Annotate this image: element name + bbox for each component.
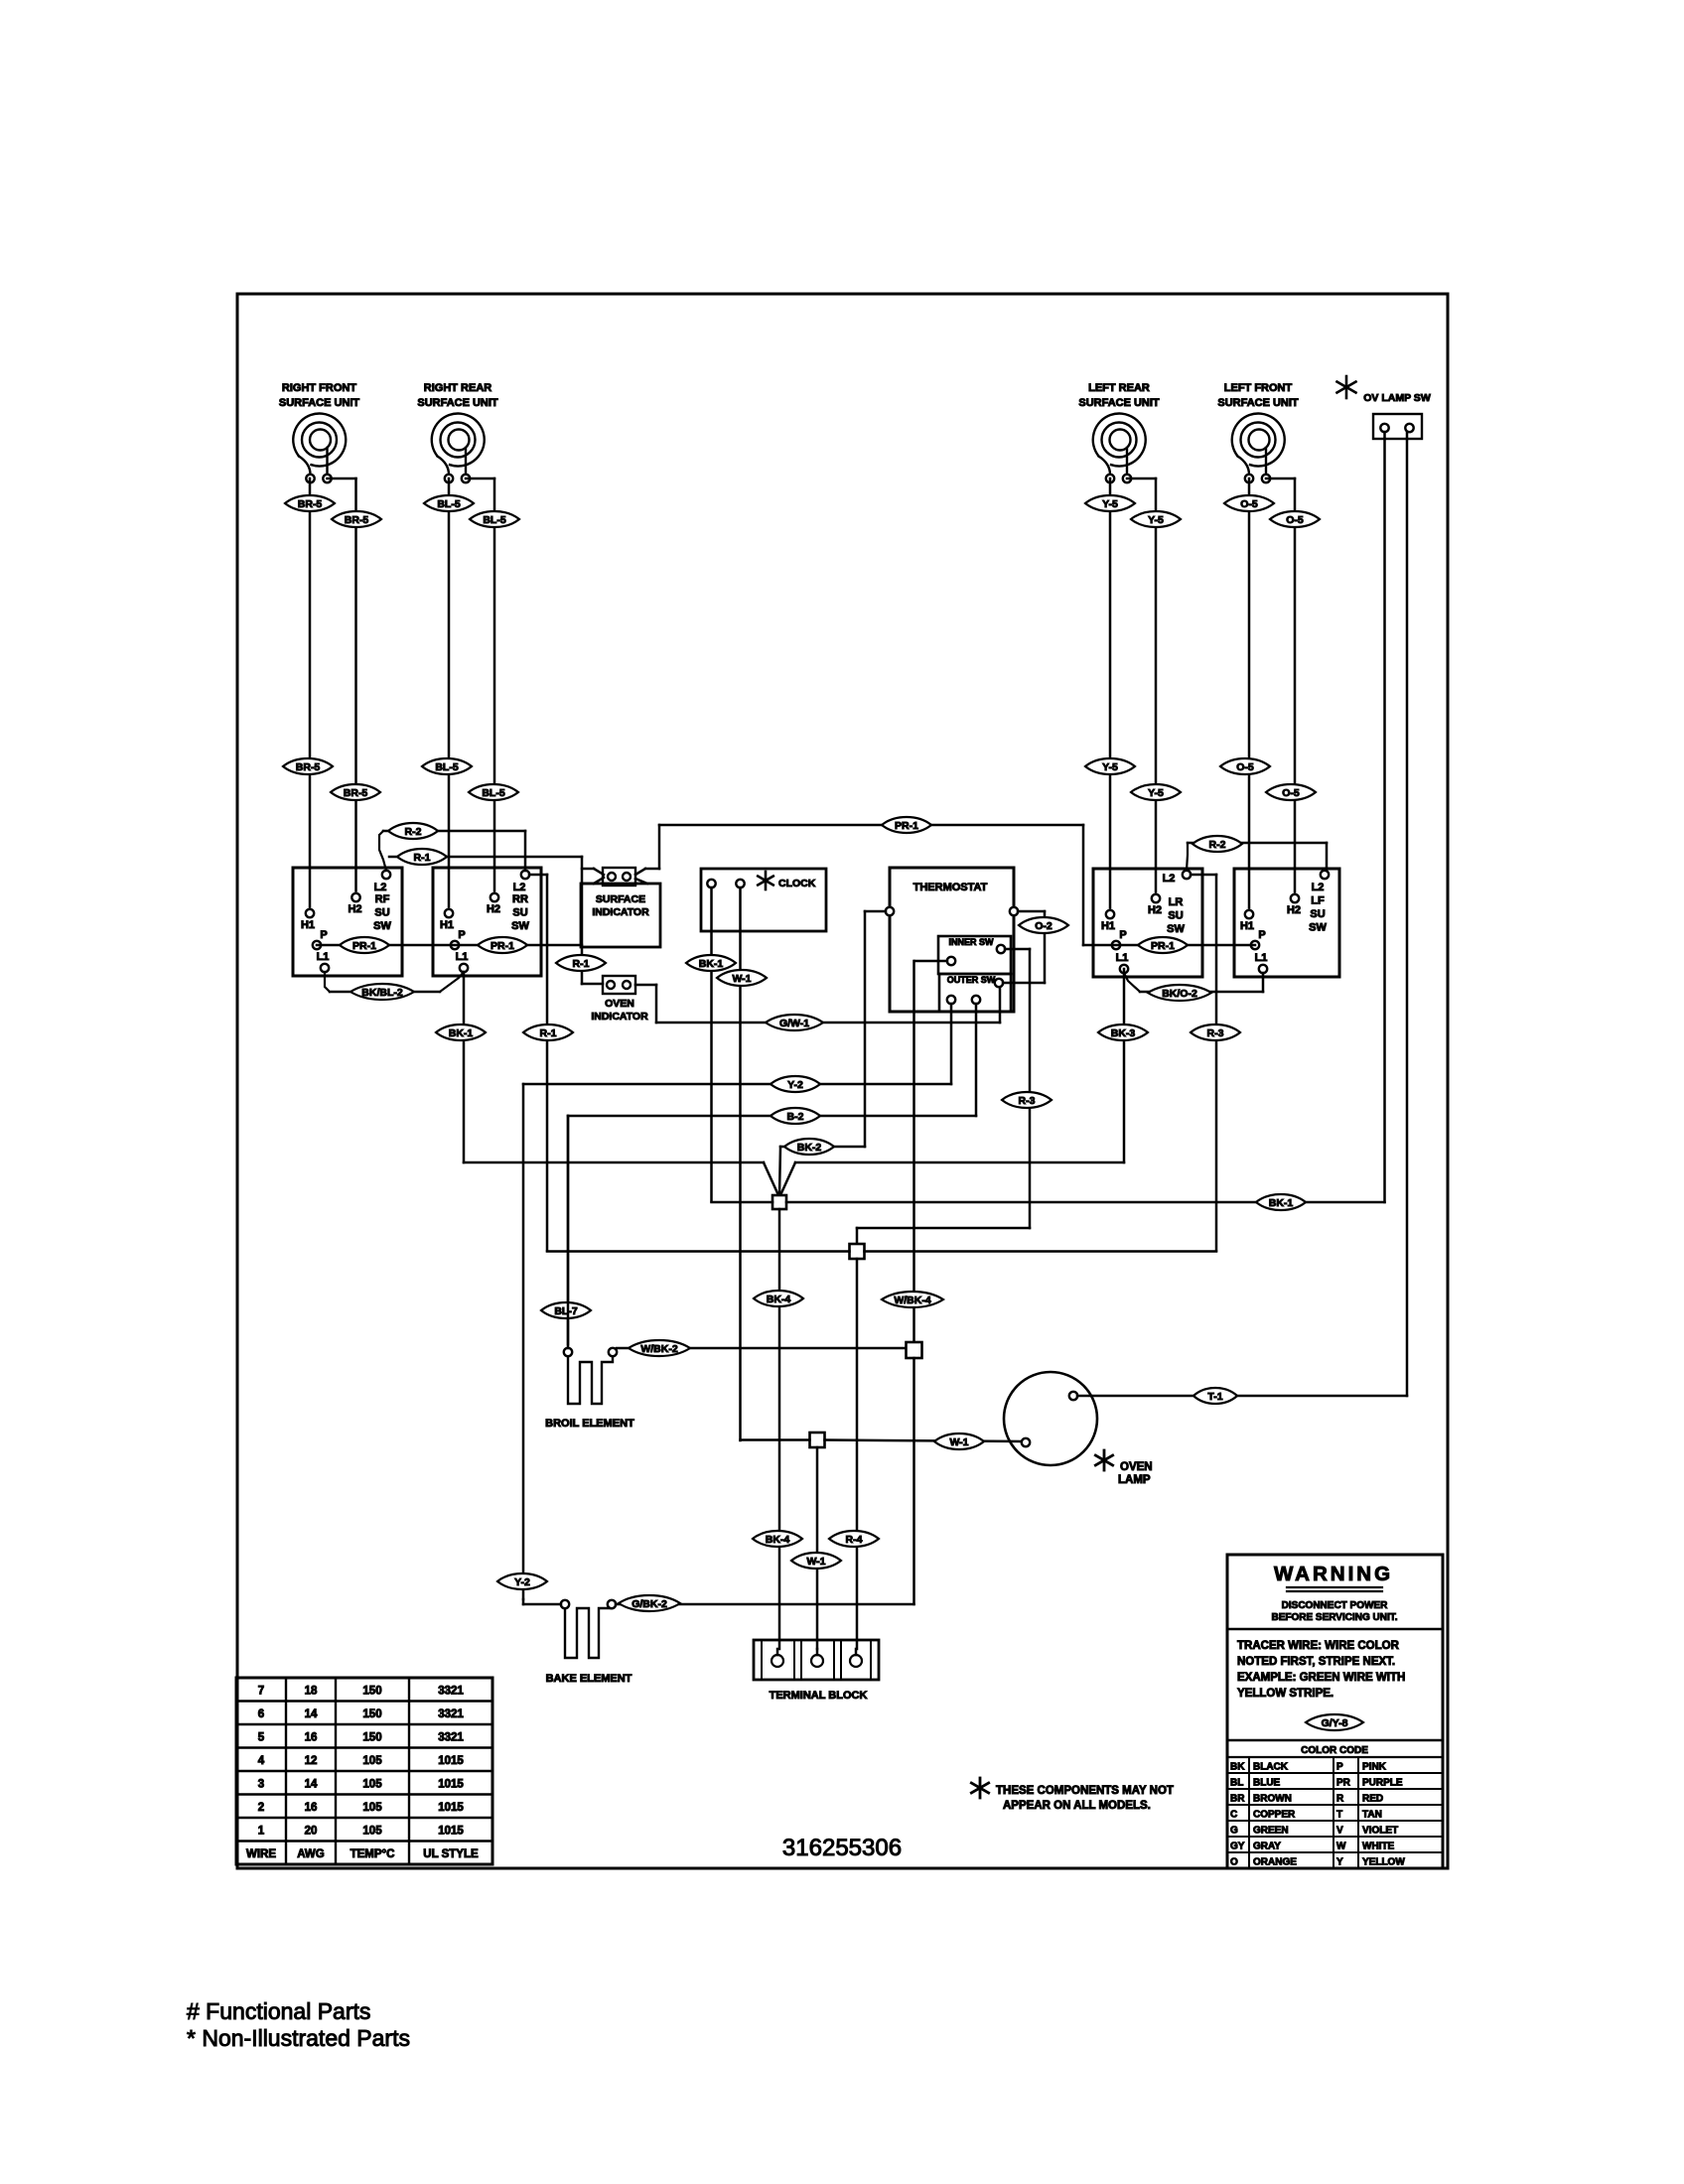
svg-text:5: 5 — [258, 1732, 265, 1744]
svg-text:WHITE: WHITE — [1362, 1842, 1395, 1852]
svg-text:Y-2: Y-2 — [514, 1576, 530, 1588]
svg-text:Y-2: Y-2 — [787, 1079, 803, 1091]
svg-text:3321: 3321 — [438, 1732, 464, 1744]
svg-text:GREEN: GREEN — [1253, 1826, 1289, 1837]
svg-text:BL-5: BL-5 — [483, 514, 505, 526]
svg-text:TAN: TAN — [1362, 1810, 1382, 1821]
svg-text:INDICATOR: INDICATOR — [591, 1011, 648, 1023]
svg-text:SW: SW — [1309, 922, 1327, 934]
svg-text:* Non-Illustrated Parts: * Non-Illustrated Parts — [187, 2025, 410, 2051]
svg-text:R-3: R-3 — [1019, 1095, 1036, 1107]
svg-text:SURFACE UNIT: SURFACE UNIT — [1078, 397, 1160, 409]
svg-text:O-2: O-2 — [1035, 920, 1052, 932]
svg-text:L1: L1 — [1255, 952, 1268, 964]
svg-text:1015: 1015 — [438, 1826, 464, 1838]
svg-text:BL-7: BL-7 — [554, 1305, 577, 1317]
svg-text:BLUE: BLUE — [1253, 1778, 1281, 1789]
svg-text:G: G — [1230, 1826, 1238, 1837]
svg-text:W-1: W-1 — [949, 1436, 968, 1448]
svg-text:W: W — [1336, 1842, 1346, 1852]
svg-text:RR: RR — [512, 893, 528, 905]
svg-text:BK/O-2: BK/O-2 — [1162, 988, 1197, 1000]
svg-text:RED: RED — [1362, 1794, 1383, 1805]
svg-text:P: P — [1119, 929, 1126, 941]
svg-text:TRACER WIRE: WIRE COLOR: TRACER WIRE: WIRE COLOR — [1237, 1640, 1400, 1652]
svg-text:RIGHT REAR: RIGHT REAR — [424, 382, 492, 394]
svg-text:BK-1: BK-1 — [449, 1027, 474, 1039]
svg-text:18: 18 — [305, 1686, 318, 1698]
svg-text:7: 7 — [258, 1686, 264, 1698]
svg-text:WIRE: WIRE — [246, 1848, 276, 1860]
svg-text:R-4: R-4 — [846, 1534, 863, 1546]
svg-text:BL-5: BL-5 — [437, 498, 460, 510]
svg-text:RF: RF — [375, 893, 390, 905]
svg-text:LEFT REAR: LEFT REAR — [1088, 382, 1150, 394]
svg-text:Y-5: Y-5 — [1148, 787, 1164, 799]
svg-text:L1: L1 — [1116, 952, 1129, 964]
svg-text:H1: H1 — [1240, 920, 1254, 932]
svg-text:GY: GY — [1230, 1842, 1245, 1852]
svg-text:BK-3: BK-3 — [1111, 1027, 1136, 1039]
svg-text:DISCONNECT POWER: DISCONNECT POWER — [1282, 1600, 1388, 1611]
svg-text:H1: H1 — [440, 919, 454, 931]
svg-text:BR: BR — [1230, 1794, 1245, 1805]
svg-text:L2: L2 — [1312, 882, 1325, 893]
svg-text:BAKE ELEMENT: BAKE ELEMENT — [546, 1673, 632, 1685]
svg-text:14: 14 — [305, 1708, 318, 1720]
svg-text:105: 105 — [362, 1826, 382, 1838]
svg-text:SW: SW — [1167, 923, 1185, 935]
svg-text:R-1: R-1 — [540, 1027, 557, 1039]
svg-text:PR-1: PR-1 — [352, 940, 376, 952]
svg-text:PR-1: PR-1 — [491, 940, 514, 952]
svg-text:CLOCK: CLOCK — [778, 878, 816, 889]
svg-text:R: R — [1336, 1794, 1344, 1805]
svg-text:1015: 1015 — [438, 1755, 464, 1767]
svg-text:WARNING: WARNING — [1274, 1563, 1393, 1585]
svg-text:# Functional Parts: # Functional Parts — [187, 1998, 370, 2024]
svg-text:OUTER SW: OUTER SW — [947, 975, 996, 985]
svg-text:H1: H1 — [301, 919, 315, 931]
svg-text:L1: L1 — [456, 951, 469, 963]
svg-text:105: 105 — [362, 1779, 382, 1791]
svg-text:PINK: PINK — [1362, 1762, 1387, 1773]
svg-text:O-5: O-5 — [1282, 787, 1300, 799]
svg-text:L2: L2 — [374, 882, 387, 893]
svg-text:14: 14 — [305, 1779, 318, 1791]
svg-text:Y-5: Y-5 — [1102, 761, 1118, 773]
svg-text:LR: LR — [1169, 896, 1184, 908]
svg-text:Y-5: Y-5 — [1148, 514, 1164, 526]
svg-text:1015: 1015 — [438, 1779, 464, 1791]
svg-text:OVEN: OVEN — [605, 998, 634, 1010]
svg-text:BR-5: BR-5 — [298, 498, 323, 510]
svg-text:L1: L1 — [317, 951, 330, 963]
svg-text:H2: H2 — [1148, 904, 1162, 916]
svg-text:W-1: W-1 — [806, 1556, 825, 1568]
svg-text:BL-5: BL-5 — [482, 787, 504, 799]
svg-text:AWG: AWG — [297, 1848, 325, 1860]
svg-text:VIOLET: VIOLET — [1362, 1826, 1398, 1837]
svg-text:SU: SU — [1168, 910, 1183, 922]
svg-text:T: T — [1336, 1810, 1342, 1821]
svg-text:P: P — [1258, 929, 1265, 941]
svg-text:105: 105 — [362, 1802, 382, 1814]
svg-text:W/BK-2: W/BK-2 — [640, 1343, 677, 1355]
svg-text:Y-5: Y-5 — [1102, 498, 1118, 510]
svg-text:O-5: O-5 — [1240, 498, 1258, 510]
svg-text:SW: SW — [373, 920, 391, 932]
svg-text:BK-2: BK-2 — [797, 1142, 822, 1154]
svg-text:L2: L2 — [513, 882, 526, 893]
svg-text:12: 12 — [305, 1755, 318, 1767]
svg-text:PURPLE: PURPLE — [1362, 1778, 1403, 1789]
svg-text:BR-5: BR-5 — [296, 761, 321, 773]
svg-text:R-3: R-3 — [1207, 1027, 1224, 1039]
svg-text:PR-1: PR-1 — [1151, 940, 1175, 952]
svg-text:R-1: R-1 — [414, 852, 431, 864]
svg-text:INNER SW: INNER SW — [949, 937, 995, 947]
svg-text:SURFACE UNIT: SURFACE UNIT — [417, 397, 498, 409]
svg-text:2: 2 — [258, 1802, 264, 1814]
svg-text:NOTED FIRST, STRIPE NEXT.: NOTED FIRST, STRIPE NEXT. — [1237, 1656, 1395, 1668]
svg-text:COPPER: COPPER — [1253, 1810, 1296, 1821]
svg-text:PR-1: PR-1 — [895, 820, 918, 832]
svg-text:EXAMPLE: GREEN WIRE WITH: EXAMPLE: GREEN WIRE WITH — [1237, 1672, 1405, 1684]
svg-text:16: 16 — [305, 1732, 318, 1744]
svg-text:BL: BL — [1230, 1778, 1243, 1789]
svg-text:BROWN: BROWN — [1253, 1794, 1292, 1805]
svg-text:GRAY: GRAY — [1253, 1842, 1281, 1852]
svg-text:COLOR CODE: COLOR CODE — [1301, 1745, 1368, 1756]
svg-text:1: 1 — [258, 1826, 265, 1838]
svg-text:RIGHT FRONT: RIGHT FRONT — [282, 382, 356, 394]
svg-text:R-2: R-2 — [1209, 839, 1226, 851]
svg-text:OVEN: OVEN — [1120, 1461, 1153, 1473]
svg-text:BK: BK — [1230, 1762, 1245, 1773]
svg-text:BEFORE SERVICING UNIT.: BEFORE SERVICING UNIT. — [1271, 1612, 1397, 1623]
svg-text:ORANGE: ORANGE — [1253, 1857, 1297, 1868]
svg-text:P: P — [458, 929, 465, 941]
svg-text:316255306: 316255306 — [782, 1835, 902, 1861]
svg-text:BL-5: BL-5 — [435, 761, 458, 773]
svg-text:SU: SU — [512, 907, 527, 919]
svg-text:V: V — [1336, 1826, 1343, 1837]
svg-text:TERMINAL BLOCK: TERMINAL BLOCK — [770, 1690, 868, 1702]
svg-text:BK-4: BK-4 — [766, 1534, 790, 1546]
svg-text:150: 150 — [362, 1686, 381, 1698]
svg-text:B-2: B-2 — [787, 1111, 804, 1123]
svg-text:APPEAR ON ALL MODELS.: APPEAR ON ALL MODELS. — [1003, 1800, 1151, 1812]
svg-text:G/W-1: G/W-1 — [779, 1018, 809, 1029]
svg-text:P: P — [320, 929, 327, 941]
svg-text:BLACK: BLACK — [1253, 1762, 1289, 1773]
svg-text:150: 150 — [362, 1708, 381, 1720]
svg-text:O-5: O-5 — [1236, 761, 1254, 773]
svg-text:SU: SU — [1310, 908, 1325, 920]
svg-text:W-1: W-1 — [732, 973, 751, 985]
svg-text:BK-4: BK-4 — [767, 1294, 791, 1305]
svg-text:20: 20 — [305, 1826, 318, 1838]
svg-text:LEFT FRONT: LEFT FRONT — [1224, 382, 1293, 394]
svg-text:PR: PR — [1336, 1778, 1351, 1789]
svg-text:L2: L2 — [1163, 873, 1176, 885]
svg-text:SU: SU — [374, 907, 389, 919]
svg-text:BROIL ELEMENT: BROIL ELEMENT — [545, 1418, 634, 1430]
svg-text:6: 6 — [258, 1708, 264, 1720]
svg-text:H2: H2 — [487, 903, 500, 915]
svg-text:SURFACE UNIT: SURFACE UNIT — [1217, 397, 1299, 409]
svg-text:3321: 3321 — [438, 1686, 464, 1698]
svg-text:C: C — [1230, 1810, 1237, 1821]
svg-text:3321: 3321 — [438, 1708, 464, 1720]
svg-text:4: 4 — [258, 1755, 265, 1767]
svg-text:1015: 1015 — [438, 1802, 464, 1814]
svg-text:SURFACE: SURFACE — [596, 893, 645, 905]
svg-text:3: 3 — [258, 1779, 264, 1791]
svg-text:R-1: R-1 — [573, 958, 590, 970]
svg-text:150: 150 — [362, 1732, 381, 1744]
svg-text:BK-1: BK-1 — [699, 958, 724, 970]
svg-text:H2: H2 — [1287, 904, 1301, 916]
svg-text:LF: LF — [1311, 895, 1325, 907]
svg-text:OV LAMP SW: OV LAMP SW — [1363, 392, 1431, 404]
svg-text:G/Y-8: G/Y-8 — [1322, 1717, 1348, 1729]
svg-text:Y: Y — [1336, 1857, 1343, 1868]
svg-text:THERMOSTAT: THERMOSTAT — [913, 882, 988, 893]
svg-text:BR-5: BR-5 — [344, 787, 368, 799]
svg-text:O-5: O-5 — [1286, 514, 1304, 526]
svg-text:P: P — [1336, 1762, 1343, 1773]
svg-text:G/BK-2: G/BK-2 — [631, 1598, 667, 1610]
svg-text:LAMP: LAMP — [1118, 1474, 1151, 1486]
svg-text:YELLOW STRIPE.: YELLOW STRIPE. — [1237, 1688, 1333, 1700]
svg-text:UL STYLE: UL STYLE — [423, 1848, 479, 1860]
svg-text:BK-1: BK-1 — [1269, 1197, 1294, 1209]
svg-text:16: 16 — [305, 1802, 318, 1814]
svg-text:BK/BL-2: BK/BL-2 — [361, 987, 403, 999]
svg-text:H1: H1 — [1101, 920, 1115, 932]
svg-text:SW: SW — [511, 920, 529, 932]
svg-text:INDICATOR: INDICATOR — [592, 906, 649, 918]
svg-text:SURFACE UNIT: SURFACE UNIT — [279, 397, 360, 409]
svg-text:105: 105 — [362, 1755, 382, 1767]
svg-text:H2: H2 — [348, 903, 361, 915]
svg-text:R-2: R-2 — [405, 826, 422, 838]
svg-text:YELLOW: YELLOW — [1362, 1857, 1405, 1868]
svg-text:W/BK-4: W/BK-4 — [894, 1295, 930, 1306]
svg-text:O: O — [1230, 1857, 1238, 1868]
svg-text:BR-5: BR-5 — [345, 514, 369, 526]
svg-text:THESE COMPONENTS MAY NOT: THESE COMPONENTS MAY NOT — [996, 1785, 1174, 1797]
svg-text:TEMP°C: TEMP°C — [351, 1848, 395, 1860]
svg-text:T-1: T-1 — [1207, 1391, 1222, 1403]
